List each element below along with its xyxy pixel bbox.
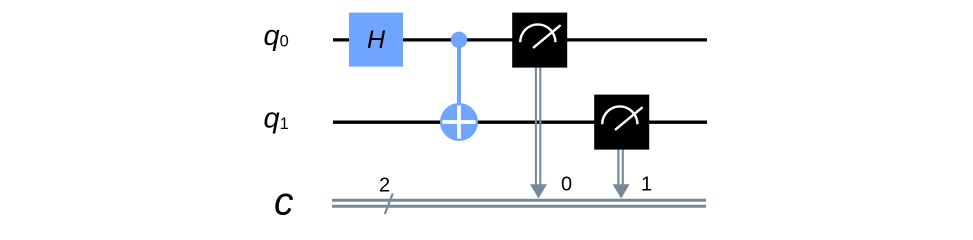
classical bus slash — [385, 194, 393, 215]
svg-text:2: 2 — [379, 175, 390, 197]
measure gate M1 on q1 — [594, 95, 649, 150]
svg-text:0: 0 — [561, 174, 572, 196]
measure gate M0 on q0 — [512, 13, 567, 68]
arrowhead into classical wire (bit 0) — [530, 184, 547, 198]
svg-text:c: c — [274, 181, 294, 224]
gate H on q0 — [349, 13, 403, 67]
wire q1 — [333, 121, 707, 124]
classical double line from measure M0 — [536, 67, 540, 185]
wire q0 — [333, 38, 707, 41]
classical wire (double line) — [332, 200, 706, 206]
svg-text:H: H — [367, 26, 386, 54]
CNOT control dot on q0 — [451, 32, 467, 48]
svg-text:1: 1 — [641, 174, 652, 196]
CNOT control-target wire — [457, 40, 461, 122]
arrowhead into classical wire (bit 1) — [613, 184, 630, 198]
classical double line from measure M1 — [618, 149, 622, 185]
CNOT target on q1 — [440, 103, 478, 141]
